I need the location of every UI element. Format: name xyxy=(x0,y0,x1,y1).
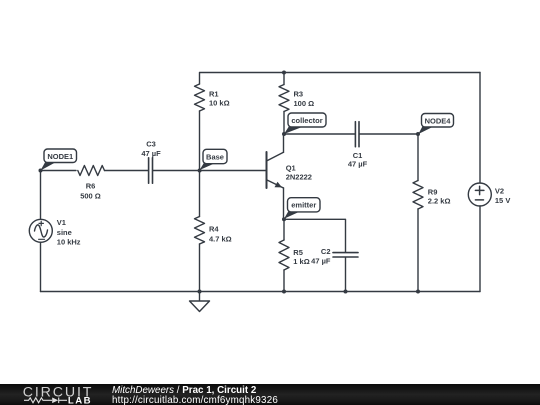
svg-text:R9: R9 xyxy=(428,187,438,196)
node R9 bottom junction dot xyxy=(416,290,420,294)
svg-text:LAB: LAB xyxy=(68,396,92,405)
wire R1 bottom lead xyxy=(199,111,201,171)
wire C1 to NODE4 xyxy=(359,133,418,135)
svg-text:C3: C3 xyxy=(146,139,156,148)
svg-text:R1: R1 xyxy=(209,89,219,98)
wire bottom rail xyxy=(41,291,481,293)
wire top rail right (R3 junction to right rail) xyxy=(284,72,480,74)
node NODE1 junction dot xyxy=(39,169,43,173)
wire R6 to C3 xyxy=(105,170,149,172)
svg-text:NODE1: NODE1 xyxy=(47,152,73,161)
node label emitter xyxy=(284,198,320,219)
node ground junction dot xyxy=(198,290,202,294)
resistor R3 xyxy=(279,85,289,112)
wire V1 bottom to bottom rail xyxy=(40,242,42,291)
svg-text:NODE4: NODE4 xyxy=(425,116,452,125)
capacitor C3 xyxy=(149,158,153,183)
svg-text:47 µF: 47 µF xyxy=(348,160,368,169)
svg-text:2.2 kΩ: 2.2 kΩ xyxy=(428,196,451,205)
svg-text:C2: C2 xyxy=(321,247,331,256)
wire emitter node to C2 xyxy=(284,219,346,252)
label R5 value xyxy=(293,248,309,266)
svg-text:http://circuitlab.com/cmf6ymqh: http://circuitlab.com/cmf6ymqhk9326 xyxy=(112,395,278,405)
capacitor C2 xyxy=(333,253,358,257)
svg-text:Base: Base xyxy=(206,152,224,161)
wire R5 bottom lead xyxy=(283,270,285,292)
footer title text xyxy=(112,385,257,396)
svg-text:10 kΩ: 10 kΩ xyxy=(209,99,230,108)
node Base junction dot xyxy=(198,169,202,173)
node C2 bottom junction dot xyxy=(344,290,348,294)
node collector junction dot xyxy=(282,132,286,136)
label V1 value xyxy=(57,218,81,246)
svg-text:15 V: 15 V xyxy=(495,196,510,205)
wire C3 to Q1 base xyxy=(153,170,266,172)
svg-text:emitter: emitter xyxy=(291,201,316,210)
label R6 value xyxy=(80,182,101,201)
wire top rail left (R1 top lead to R3 junction) xyxy=(200,73,285,85)
wire Q1 collector up xyxy=(283,134,285,152)
resistor R9 xyxy=(413,181,423,210)
svg-text:R6: R6 xyxy=(86,182,96,191)
wire R9 bottom lead xyxy=(417,209,419,292)
wire C2 bottom lead xyxy=(345,257,347,291)
wire R3 bottom lead to collector node xyxy=(283,112,285,135)
svg-text:V1: V1 xyxy=(57,218,66,227)
wire R5 top lead xyxy=(283,219,285,240)
svg-text:R5: R5 xyxy=(293,248,303,257)
node top rail R3 junction dot xyxy=(282,71,286,75)
capacitor C1 xyxy=(355,122,359,147)
svg-text:collector: collector xyxy=(291,116,322,125)
svg-text:C1: C1 xyxy=(353,151,363,160)
resistor R4 xyxy=(195,217,205,245)
label V2 value xyxy=(495,187,510,205)
node label Base xyxy=(200,149,227,170)
svg-text:500 Ω: 500 Ω xyxy=(80,192,101,201)
label R3 value xyxy=(294,89,315,108)
resistor R1 xyxy=(195,84,205,111)
svg-text:10 kHz: 10 kHz xyxy=(57,237,81,246)
svg-text:R4: R4 xyxy=(209,225,219,234)
logo CIRCUIT text xyxy=(23,384,93,400)
node R5 bottom junction dot xyxy=(282,290,286,294)
svg-text:4.7 kΩ: 4.7 kΩ xyxy=(209,234,232,243)
wire R3 top lead xyxy=(283,73,285,85)
node label collector xyxy=(284,113,326,134)
wire NODE1 to R6 xyxy=(41,170,77,172)
label Q1 value xyxy=(286,164,312,182)
resistor R6 xyxy=(78,166,105,176)
logo LAB text xyxy=(68,396,92,405)
label C1 value xyxy=(348,151,368,169)
label C3 value xyxy=(141,139,161,158)
svg-text:47 µF: 47 µF xyxy=(311,256,331,265)
node NODE4 junction dot xyxy=(416,132,420,136)
svg-text:V2: V2 xyxy=(495,187,504,196)
ground xyxy=(190,292,210,312)
label C2 value xyxy=(311,247,331,265)
wire left rail NODE1 to V1 xyxy=(40,171,42,220)
svg-text:1 kΩ: 1 kΩ xyxy=(293,257,309,266)
label R1 value xyxy=(209,89,230,107)
wire R4 bottom lead xyxy=(199,244,201,292)
svg-text:sine: sine xyxy=(57,228,72,237)
wire right rail down to V2 xyxy=(479,73,481,184)
node emitter junction dot xyxy=(282,217,286,221)
logo squiggle resistor-diode xyxy=(24,398,67,404)
svg-text:47 µF: 47 µF xyxy=(141,149,161,158)
wire NODE4 down to R9 xyxy=(417,134,419,181)
transistor Q1 xyxy=(267,152,284,188)
voltage source V2 xyxy=(468,183,491,206)
resistor R5 xyxy=(279,240,289,270)
voltage source V1 xyxy=(29,219,52,242)
label R9 value xyxy=(428,187,451,205)
footer url text xyxy=(112,395,278,405)
svg-text:2N2222: 2N2222 xyxy=(286,172,312,181)
svg-text:Q1: Q1 xyxy=(286,164,296,173)
label R4 value xyxy=(209,225,232,244)
node label NODE1 xyxy=(41,149,77,171)
wire Q1 emitter down xyxy=(283,188,285,219)
node label NODE4 xyxy=(418,114,453,135)
wire collector node to C1 xyxy=(284,133,355,135)
svg-text:100 Ω: 100 Ω xyxy=(294,99,315,108)
svg-text:R3: R3 xyxy=(294,89,304,98)
wire R4 top lead xyxy=(199,171,201,217)
wire V2 bottom to bottom rail xyxy=(479,206,481,292)
